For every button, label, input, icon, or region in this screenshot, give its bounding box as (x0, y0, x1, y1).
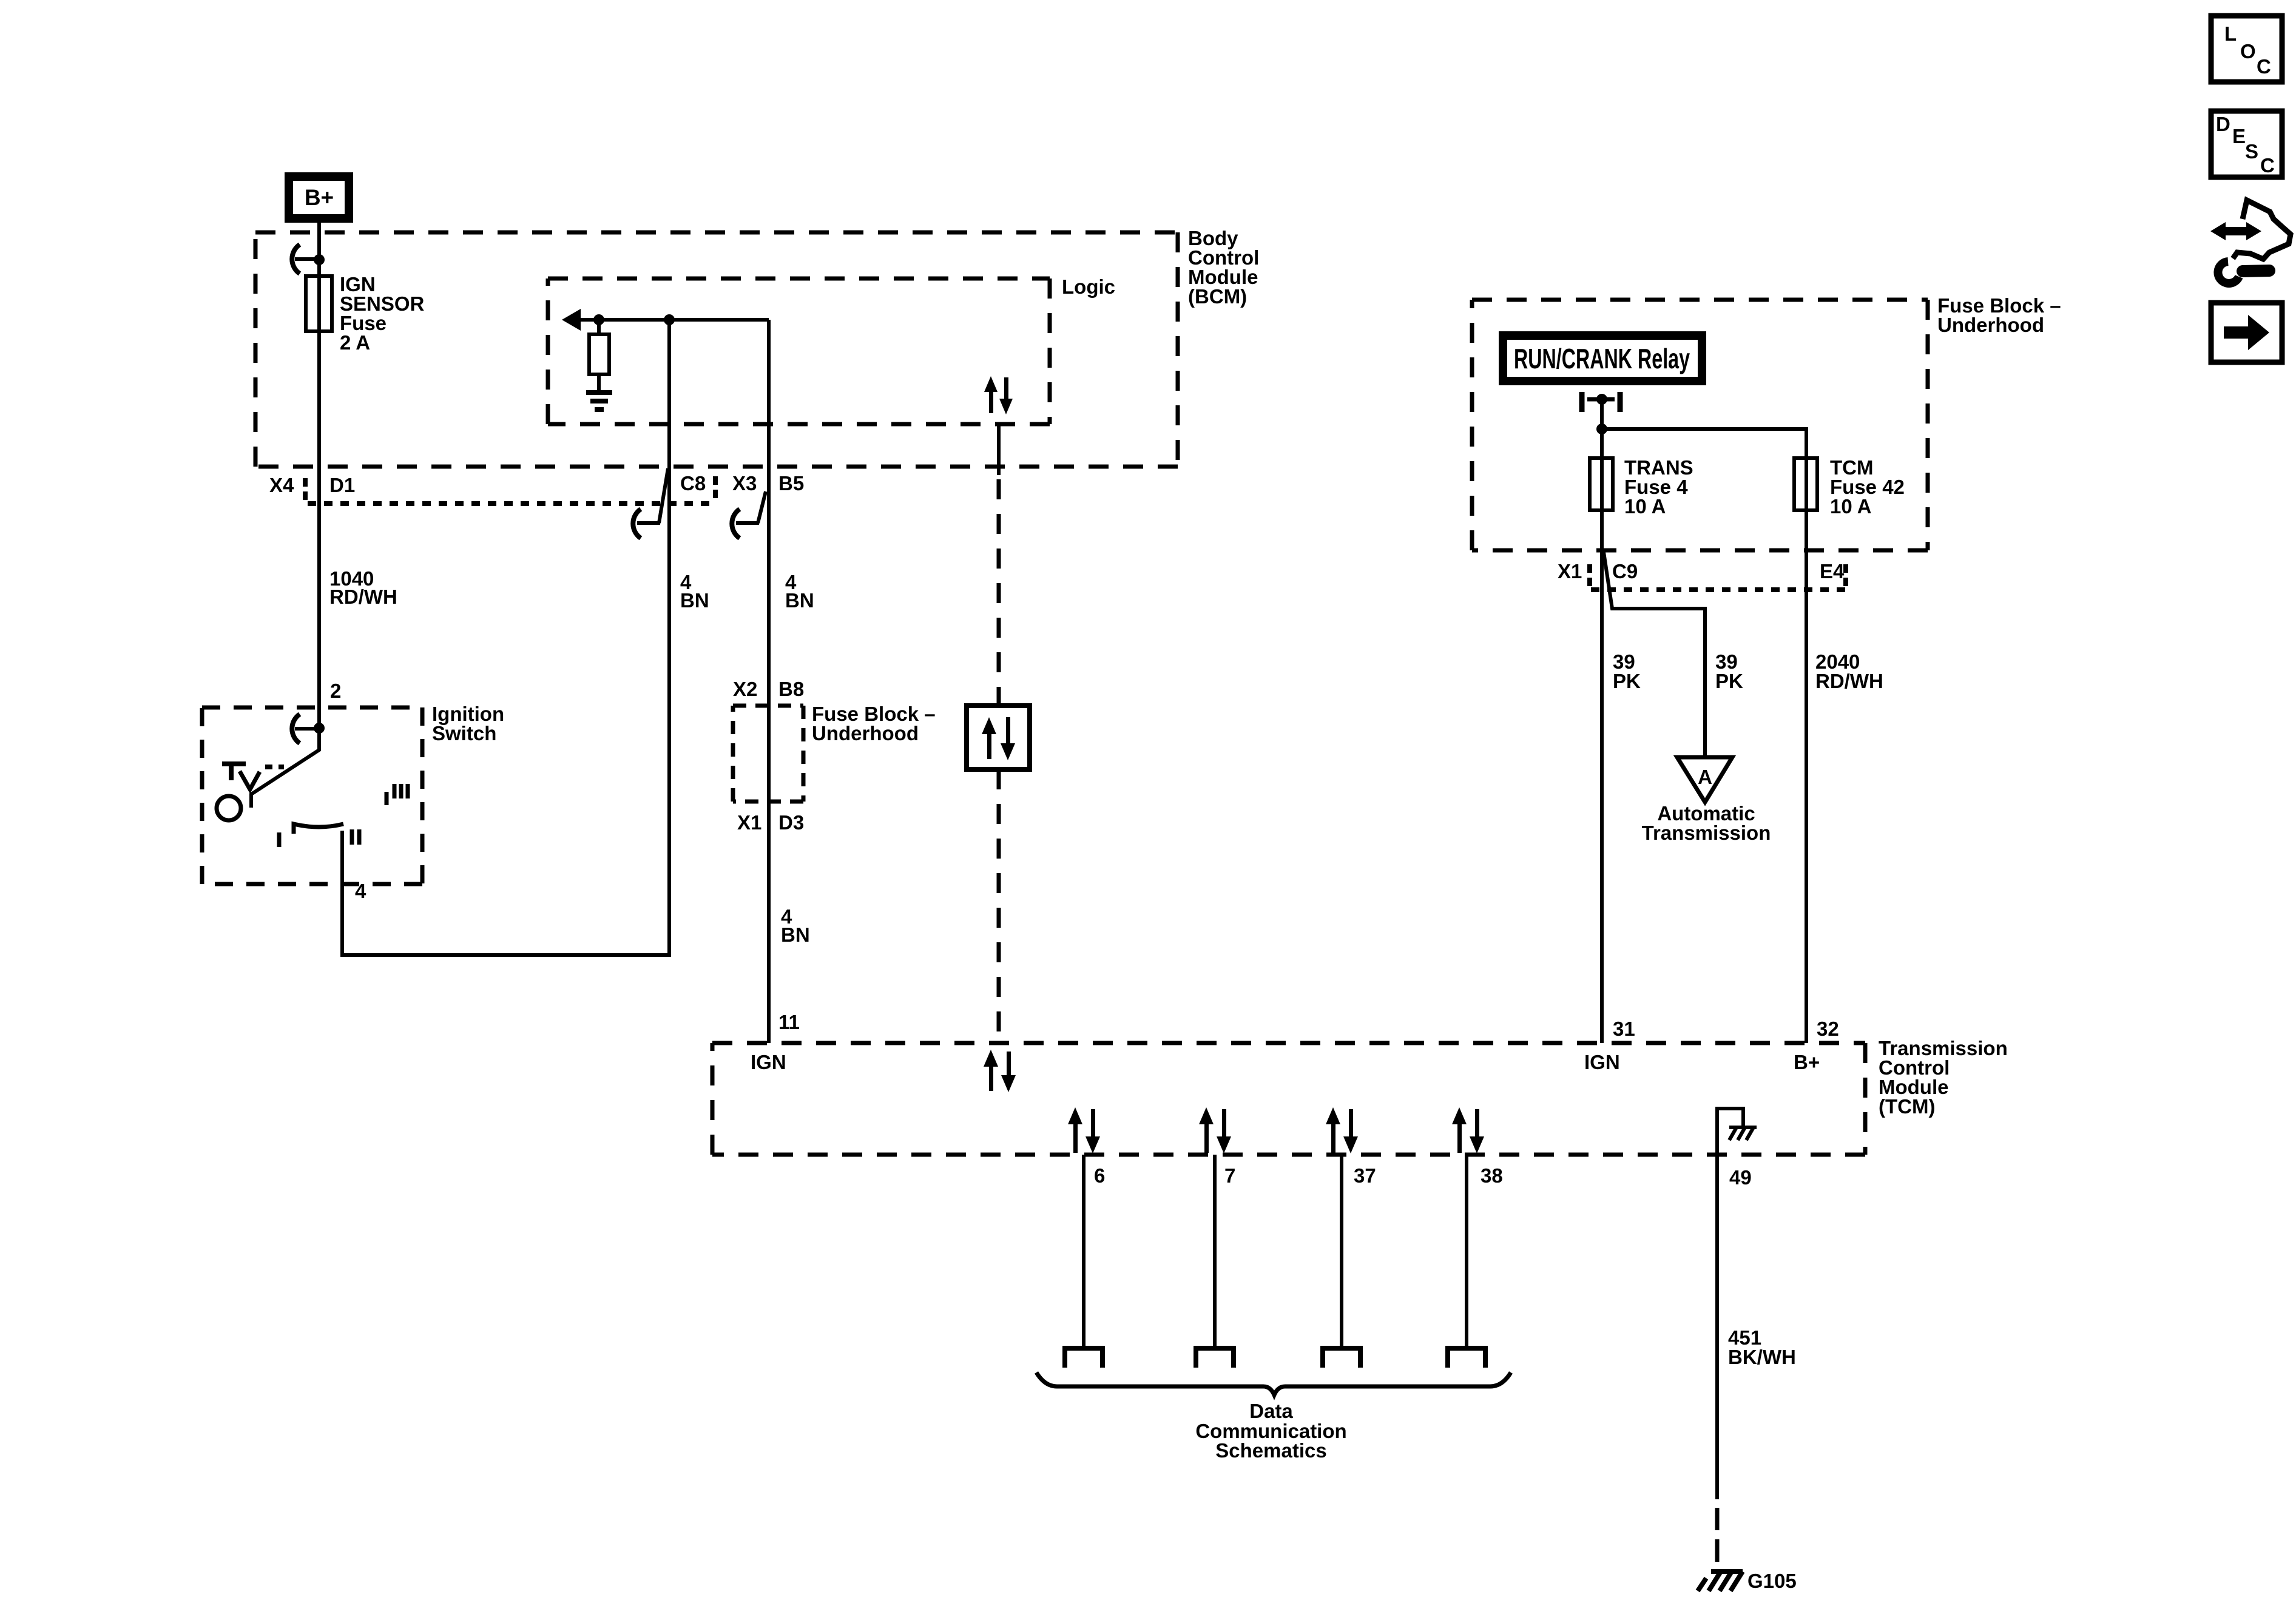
wire label 2040 RD/WH (1815, 650, 1883, 692)
wire label 451 BK/WH (1728, 1326, 1796, 1368)
Data Communication Schematics label (1195, 1400, 1346, 1462)
ignition switch clip (292, 714, 319, 743)
BCM connector strip labels X4 | D1 ... C8 | X3 | B5 (269, 472, 804, 500)
svg-text:7: 7 (1224, 1164, 1235, 1187)
svg-text:PK: PK (1715, 670, 1743, 692)
serial data arrows inside TCM (984, 1050, 1016, 1092)
svg-text:Schematics: Schematics (1215, 1439, 1326, 1462)
svg-text:32: 32 (1817, 1018, 1839, 1040)
Ignition Switch dashed box (202, 707, 422, 884)
pin number labels 6 7 37 38 (1094, 1164, 1503, 1187)
dashed continuation of ground wire (1715, 1508, 1720, 1562)
svg-text:49: 49 (1729, 1166, 1752, 1189)
Ignition Switch label (432, 703, 504, 744)
TCM internal chassis ground symbol (1729, 1127, 1757, 1140)
open connector symbols at data wire ends (1065, 1348, 1485, 1368)
TCM data pins 6 7 37 38 with arrows (1068, 1107, 1100, 1153)
svg-text:S: S (2245, 140, 2258, 163)
TRANS Fuse 4 10 A (1590, 456, 1693, 518)
Transmission Control Module (TCM) dashed box (712, 1043, 1865, 1155)
svg-text:38: 38 (1481, 1164, 1503, 1187)
svg-text:11: 11 (778, 1011, 800, 1033)
wire label 4 BN (B5 branch) (785, 571, 814, 612)
C9 terminal branch to transmission (1604, 552, 1705, 757)
relay contact bracket (1582, 392, 1620, 412)
svg-text:IGN: IGN (1584, 1051, 1620, 1073)
svg-text:E4: E4 (1820, 560, 1845, 582)
Automatic Transmission label (1642, 802, 1771, 844)
svg-text:O: O (2240, 40, 2256, 62)
svg-text:4: 4 (355, 880, 366, 902)
svg-text:B+: B+ (305, 185, 334, 210)
Fuse Block - Underhood label (left) (812, 703, 936, 744)
position I marker (277, 832, 282, 847)
svg-text:C8: C8 (680, 472, 706, 495)
ignition switch movable contact lever (251, 728, 319, 808)
node: C8 tap (664, 314, 675, 325)
BCM label (1188, 227, 1259, 308)
ignition key symbol (222, 764, 284, 789)
serial data dashed line (lower) (997, 769, 1001, 1043)
TCM Fuse 42 10 A (1794, 456, 1905, 518)
serial data dashed line (upper) (997, 424, 1001, 475)
wire label 39 PK (left) (1613, 650, 1641, 692)
diagnostic icon: double arrow, outline, wrench (2210, 200, 2291, 283)
X1 D3 connector labels (737, 811, 804, 834)
wire label 39 PK (right) (1715, 650, 1743, 692)
svg-text:(BCM): (BCM) (1188, 285, 1247, 308)
svg-text:RUN/CRANK Relay: RUN/CRANK Relay (1514, 343, 1690, 374)
svg-text:(TCM): (TCM) (1879, 1095, 1935, 1118)
B5 terminal symbol (diagonal + clip) (732, 491, 766, 538)
svg-text:Underhood: Underhood (812, 722, 919, 744)
position II marker (352, 829, 359, 845)
position III marker (387, 784, 408, 805)
RUN/CRANK Relay box (1503, 336, 1702, 381)
svg-text:B5: B5 (778, 472, 804, 495)
svg-text:31: 31 (1613, 1018, 1635, 1040)
svg-text:D1: D1 (329, 474, 355, 496)
svg-text:2: 2 (330, 680, 341, 702)
BCM connector strip bottom dotted line (308, 501, 715, 506)
svg-text:10 A: 10 A (1830, 495, 1871, 518)
IGN SENSOR Fuse 2 A (306, 273, 425, 354)
in-line connector clip at B+ feed (292, 245, 319, 274)
svg-text:B8: B8 (778, 678, 804, 700)
ignition switch rotor circle (217, 796, 241, 820)
DESC icon box (2211, 111, 2282, 177)
svg-text:X4: X4 (269, 474, 294, 496)
resistor (pull-down) in BCM logic (589, 320, 609, 390)
fuse block connector bottom dotted line (1591, 587, 1846, 592)
svg-text:10 A: 10 A (1624, 495, 1666, 518)
svg-text:Transmission: Transmission (1642, 822, 1771, 844)
svg-text:IGN: IGN (751, 1051, 786, 1073)
Logic inner dashed box (548, 279, 1050, 424)
TCM label (1879, 1037, 2008, 1118)
svg-text:Underhood: Underhood (1937, 314, 2044, 336)
svg-text:G105: G105 (1747, 1570, 1797, 1592)
svg-text:Switch: Switch (432, 722, 496, 744)
node: resistor tap (593, 314, 604, 325)
brace for data communication (1036, 1372, 1511, 1395)
wire from B+ down to ignition switch (317, 223, 321, 728)
Automatic Transmission off-page triangle A (1677, 757, 1732, 802)
wire label 1040 RD/WH (329, 567, 397, 608)
svg-text:BN: BN (781, 923, 810, 946)
svg-text:C: C (2257, 55, 2271, 78)
svg-text:B+: B+ (1794, 1051, 1820, 1073)
svg-text:X3: X3 (732, 472, 757, 495)
B+ power symbol box (289, 177, 349, 218)
TCM pin names (751, 1051, 1820, 1073)
svg-text:Logic: Logic (1062, 275, 1115, 298)
svg-text:2 A: 2 A (340, 331, 370, 354)
BCM status arrows (up/down) above logic box bottom (984, 376, 1013, 414)
svg-text:BN: BN (785, 589, 814, 612)
svg-text:RD/WH: RD/WH (1815, 670, 1883, 692)
logic bus wire with left arrowhead (562, 309, 769, 331)
svg-text:D: D (2216, 113, 2230, 135)
wire from relay to fuses (1600, 399, 1604, 1043)
ignition switch node (314, 723, 325, 734)
wire label 4 BN (C8 branch) (680, 571, 709, 612)
ignition switch contact arc (294, 824, 343, 834)
TCM internal ground trace pin 49 (1717, 1109, 1743, 1499)
svg-text:X1: X1 (1558, 560, 1582, 582)
svg-text:37: 37 (1354, 1164, 1376, 1187)
svg-text:X2: X2 (733, 678, 757, 700)
svg-text:E: E (2232, 125, 2246, 147)
wire C8 branch: down through connector, to ignition switch pin 4 (342, 320, 669, 955)
junction dot below B+ (314, 254, 325, 265)
svg-text:X1: X1 (737, 811, 761, 834)
svg-text:D3: D3 (778, 811, 804, 834)
fuse block connector labels X1 | C9 ... E4 (1558, 560, 1848, 586)
wire across to TCM fuse (1602, 429, 1806, 1043)
Fuse Block - Underhood (right) dashed box (1472, 300, 1928, 550)
serial data node box with up/down arrows (967, 706, 1030, 769)
svg-text:PK: PK (1613, 670, 1641, 692)
Fuse Block - Underhood label (right) (1937, 294, 2061, 336)
earth ground symbol in logic (586, 393, 612, 410)
svg-text:Data: Data (1249, 1400, 1293, 1422)
svg-text:BN: BN (680, 589, 709, 612)
svg-text:L: L (2224, 22, 2237, 45)
svg-text:BK/WH: BK/WH (1728, 1346, 1796, 1368)
wire label 4 BN (below fuse block) (781, 905, 810, 946)
G105 chassis ground symbol (1698, 1571, 1743, 1591)
C8 terminal symbol (diagonal + clip) (633, 468, 668, 538)
svg-text:C: C (2260, 154, 2275, 177)
svg-text:A: A (1698, 766, 1712, 788)
data wires from pins 6 7 37 38 (1084, 1155, 1467, 1348)
X2 B8 connector labels (733, 678, 804, 700)
Body Control Module (BCM) dashed box (255, 232, 1178, 467)
forward arrow icon box (2211, 303, 2282, 362)
svg-text:C9: C9 (1612, 560, 1638, 582)
node at relay output (1596, 424, 1607, 434)
wire B5 branch: down through fuse block to TCM pin 11 (767, 320, 771, 1043)
svg-text:6: 6 (1094, 1164, 1105, 1187)
Fuse Block - Underhood small dashed box (733, 706, 803, 802)
svg-text:RD/WH: RD/WH (329, 586, 397, 608)
LOC icon box (2211, 16, 2282, 82)
